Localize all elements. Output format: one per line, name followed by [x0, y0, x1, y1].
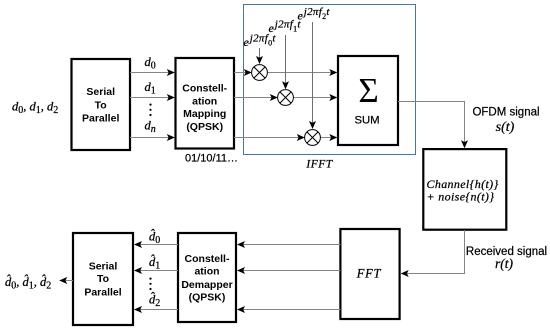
svg-text:d0: d0: [145, 55, 156, 72]
svg-text:ej2πf2t: ej2πf2t: [298, 6, 331, 23]
svg-text:d0, d1, d2: d0, d1, d2: [12, 100, 58, 117]
svg-text:(QPSK): (QPSK): [186, 121, 223, 133]
svg-text:ation: ation: [194, 266, 219, 278]
svg-text:SUM: SUM: [354, 115, 379, 127]
svg-text:r(t): r(t): [495, 256, 514, 271]
svg-text:Constell-: Constell-: [182, 83, 227, 95]
svg-text:ation: ation: [192, 95, 217, 107]
svg-text:d̂0, d̂1, d̂2: d̂0, d̂1, d̂2: [5, 274, 51, 291]
svg-text:Serial: Serial: [89, 260, 118, 272]
svg-text:To: To: [95, 99, 107, 111]
svg-text:Parallel: Parallel: [84, 286, 121, 298]
svg-text:(QPSK): (QPSK): [189, 292, 226, 304]
svg-text:01/10/11…: 01/10/11…: [185, 153, 238, 165]
svg-text:Demapper: Demapper: [181, 279, 232, 291]
svg-text:d̂1: d̂1: [149, 254, 160, 271]
svg-text:Mapping: Mapping: [183, 108, 226, 120]
svg-text:Parallel: Parallel: [82, 113, 119, 125]
svg-text:d̂2: d̂2: [149, 292, 160, 309]
svg-text:Constell-: Constell-: [185, 253, 230, 265]
svg-text:d̂0: d̂0: [149, 229, 160, 246]
svg-text:To: To: [97, 273, 109, 285]
svg-text:dn: dn: [145, 119, 156, 136]
svg-text:d1: d1: [145, 80, 156, 97]
svg-text:FFT: FFT: [356, 267, 382, 281]
svg-text:IFFT: IFFT: [305, 159, 333, 171]
svg-text:OFDM signal: OFDM signal: [472, 107, 539, 119]
svg-text:Serial: Serial: [86, 86, 115, 98]
svg-text:ej2πf1t: ej2πf1t: [269, 19, 302, 36]
svg-text:s(t): s(t): [496, 120, 515, 135]
svg-text:+ noise{n(t)}: + noise{n(t)}: [427, 189, 495, 203]
svg-text:Σ: Σ: [358, 71, 378, 110]
